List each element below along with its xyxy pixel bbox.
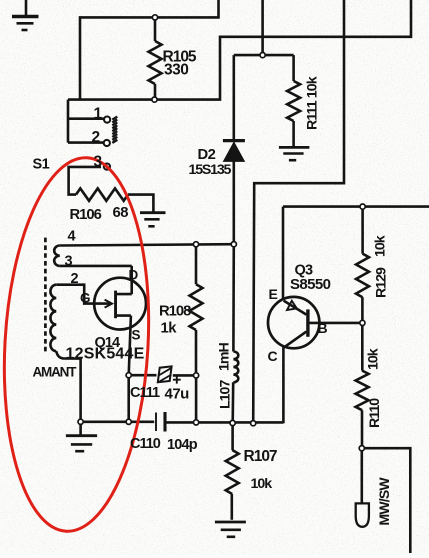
svg-text:E: E: [269, 286, 278, 302]
svg-text:12SK544E: 12SK544E: [66, 345, 145, 362]
svg-text:68: 68: [113, 205, 129, 221]
svg-text:2: 2: [71, 271, 79, 287]
svg-text:R106: R106: [70, 207, 102, 223]
svg-text:D: D: [129, 268, 139, 283]
svg-text:D2: D2: [198, 147, 216, 163]
svg-text:10k: 10k: [366, 348, 382, 370]
svg-text:330: 330: [164, 62, 188, 79]
svg-text:MW/SW: MW/SW: [376, 477, 392, 526]
svg-text:10k: 10k: [251, 476, 273, 492]
svg-text:S: S: [132, 328, 141, 343]
svg-text:10k: 10k: [373, 235, 389, 257]
svg-text:R111 10k: R111 10k: [305, 76, 321, 130]
svg-text:C: C: [268, 348, 278, 364]
svg-text:R110: R110: [367, 398, 383, 428]
svg-text:R108: R108: [159, 304, 191, 320]
svg-text:4: 4: [68, 229, 76, 245]
svg-text:G: G: [80, 291, 90, 306]
svg-text:AMANT: AMANT: [33, 364, 78, 379]
svg-text:R129: R129: [374, 267, 390, 298]
svg-text:B: B: [318, 320, 328, 336]
svg-text:3: 3: [65, 254, 73, 270]
svg-text:104p: 104p: [167, 437, 198, 453]
svg-text:S1: S1: [33, 157, 50, 173]
svg-text:15S135: 15S135: [189, 162, 232, 178]
svg-text:1k: 1k: [161, 321, 178, 337]
svg-text:C110: C110: [130, 436, 161, 452]
svg-text:C111: C111: [130, 385, 160, 401]
svg-text:2: 2: [92, 129, 100, 146]
svg-text:R107: R107: [244, 448, 277, 465]
svg-text:47u: 47u: [165, 386, 190, 403]
svg-text:1mH: 1mH: [217, 342, 233, 371]
svg-text:S8550: S8550: [290, 276, 331, 293]
svg-text:L107: L107: [218, 380, 234, 409]
